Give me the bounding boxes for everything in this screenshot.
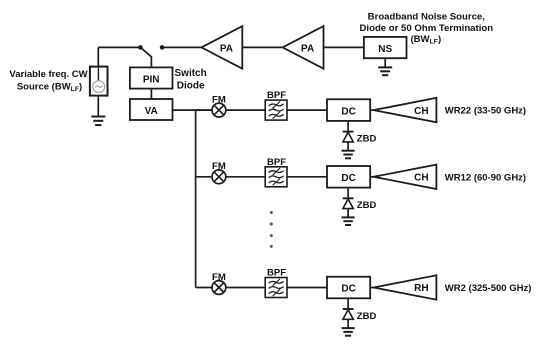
svg-text:VA: VA <box>145 106 158 117</box>
svg-text:WR2 (325-500 GHz): WR2 (325-500 GHz) <box>445 283 532 294</box>
svg-text:WR22 (33-50 GHz): WR22 (33-50 GHz) <box>445 106 526 117</box>
svg-text:NS: NS <box>378 44 392 55</box>
svg-text:DC: DC <box>341 173 355 184</box>
svg-text:Variable freq. CW: Variable freq. CW <box>9 69 87 80</box>
svg-text:Diode: Diode <box>177 80 205 91</box>
svg-text:ZBD: ZBD <box>357 133 377 144</box>
svg-text:FM: FM <box>212 94 226 105</box>
svg-text:FM: FM <box>212 161 226 172</box>
svg-text:Switch: Switch <box>175 68 207 79</box>
svg-text:CH: CH <box>414 173 428 184</box>
svg-text:DC: DC <box>341 106 355 117</box>
svg-text:ZBD: ZBD <box>357 311 377 322</box>
svg-text:CH: CH <box>414 106 428 117</box>
svg-text:RH: RH <box>414 283 428 294</box>
svg-text:DC: DC <box>341 284 355 295</box>
svg-text:Broadband Noise Source,: Broadband Noise Source, <box>368 12 486 23</box>
svg-text:Diode or 50 Ohm Termination: Diode or 50 Ohm Termination <box>359 23 493 34</box>
svg-text:ZBD: ZBD <box>357 200 377 211</box>
svg-text:PA: PA <box>301 44 314 55</box>
svg-text:BPF: BPF <box>267 157 286 168</box>
svg-text:WR12 (60-90 GHz): WR12 (60-90 GHz) <box>445 172 526 183</box>
svg-text:PA: PA <box>220 44 233 55</box>
svg-text:FM: FM <box>212 272 226 283</box>
svg-text:BPF: BPF <box>267 268 286 279</box>
svg-text:PIN: PIN <box>143 75 160 86</box>
svg-text:BPF: BPF <box>267 90 286 101</box>
